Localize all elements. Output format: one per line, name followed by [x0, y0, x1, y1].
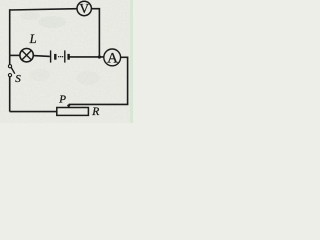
svg-text:V: V: [79, 1, 89, 16]
svg-text:P: P: [58, 94, 66, 106]
svg-text:R: R: [91, 106, 99, 118]
svg-text:S: S: [15, 73, 21, 85]
svg-text:L: L: [29, 32, 37, 46]
svg-text:A: A: [107, 50, 118, 66]
